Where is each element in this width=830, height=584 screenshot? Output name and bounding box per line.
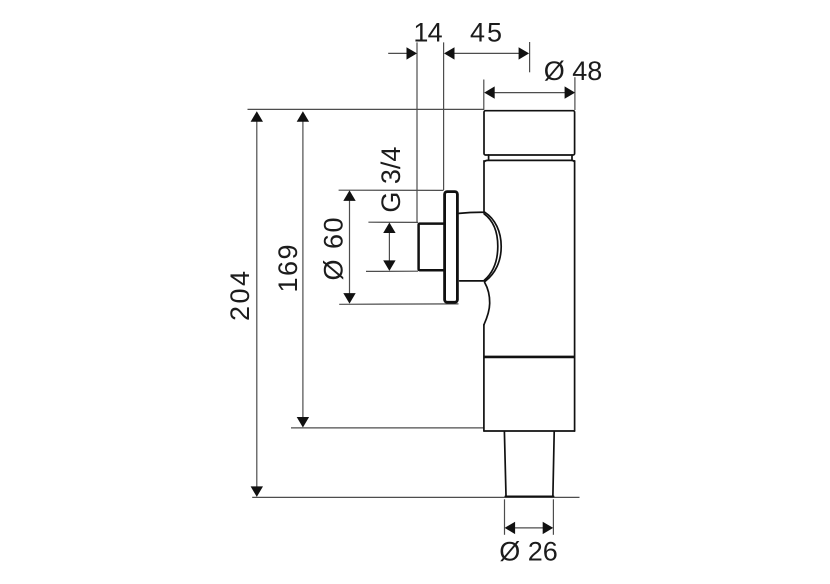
svg-text:Ø 26: Ø 26 xyxy=(499,537,558,567)
svg-text:G 3/4: G 3/4 xyxy=(376,147,406,213)
svg-text:169: 169 xyxy=(273,243,303,293)
svg-text:204: 204 xyxy=(225,268,255,321)
svg-text:45: 45 xyxy=(470,18,504,48)
svg-text:Ø 60: Ø 60 xyxy=(318,216,348,281)
svg-text:14: 14 xyxy=(413,18,442,48)
svg-text:Ø 48: Ø 48 xyxy=(544,56,603,86)
